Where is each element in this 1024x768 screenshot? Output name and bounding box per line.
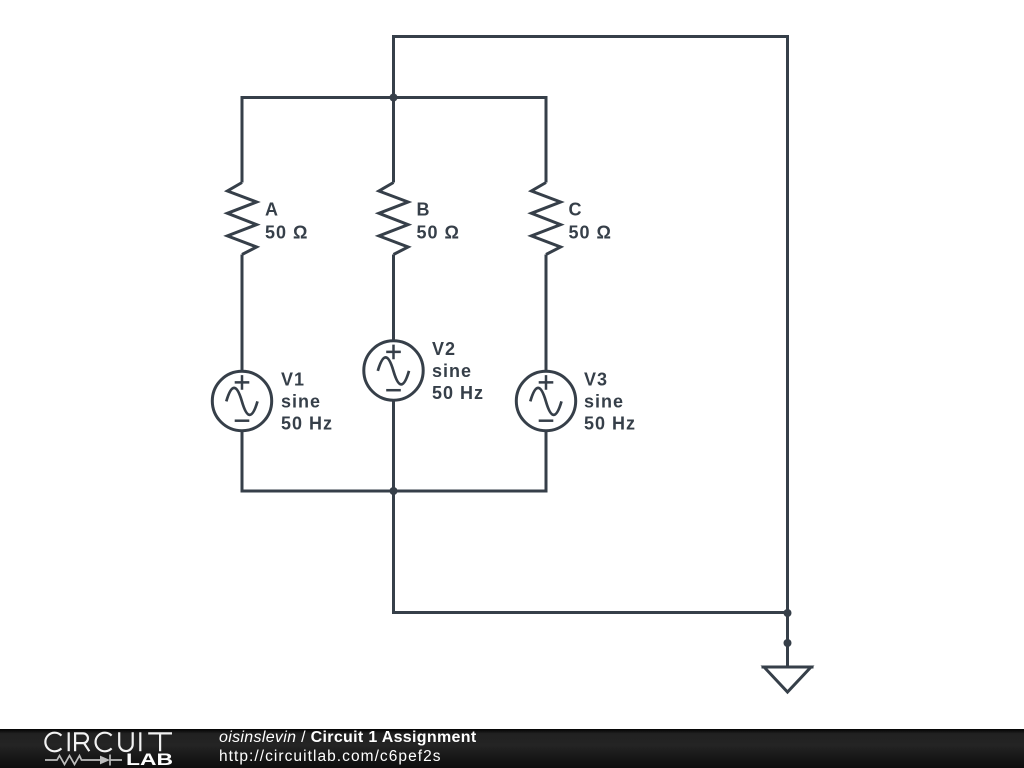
- svg-text:50 Ω: 50 Ω: [265, 223, 308, 243]
- footer bar: [0, 729, 1024, 768]
- footer text: [219, 729, 476, 765]
- svg-text:sine: sine: [584, 392, 624, 412]
- CircuitLab logo word CIRCUIT (drawn thin geometric letters): [45, 732, 172, 751]
- label V1 value: [281, 370, 333, 434]
- wire bottom rail: [242, 490, 546, 493]
- wire branch A top lead: [241, 96, 244, 183]
- node at right vertical / bottom return junction: [784, 609, 792, 617]
- resistor A: [227, 183, 256, 255]
- CircuitLab logo resistor-diode glyph: [45, 755, 122, 766]
- svg-text:A: A: [265, 200, 279, 220]
- label B value: [417, 200, 460, 243]
- wire outer loop top horizontal: [392, 35, 788, 38]
- wire branch B middle lead: [392, 255, 395, 343]
- voltage source V1: [212, 371, 271, 430]
- node at ground connection: [784, 639, 792, 647]
- svg-text:C: C: [569, 200, 583, 220]
- label V3 value: [584, 370, 636, 434]
- voltage source V3: [516, 371, 575, 430]
- wire branch C middle lead: [545, 255, 548, 373]
- voltage source V2: [364, 341, 423, 400]
- svg-text:50 Ω: 50 Ω: [569, 223, 612, 243]
- svg-text:V1: V1: [281, 370, 305, 390]
- wire top-left vertical from node B-top up to outer loop: [392, 37, 395, 98]
- svg-text:sine: sine: [432, 361, 472, 381]
- svg-text:50 Hz: 50 Hz: [281, 414, 333, 434]
- svg-text:50 Hz: 50 Hz: [584, 414, 636, 434]
- wire outer loop right vertical: [786, 35, 789, 613]
- wire branch B top lead: [392, 98, 395, 183]
- wire branch A bottom lead: [241, 430, 244, 493]
- label V2 value: [432, 339, 484, 403]
- wire branch C bottom lead: [545, 430, 548, 493]
- wire bottom return vertical: [392, 491, 395, 613]
- wire branch A middle lead: [241, 255, 244, 373]
- wire ground stub: [786, 613, 789, 667]
- label C value: [569, 200, 612, 243]
- svg-text:V3: V3: [584, 370, 608, 390]
- wire branch C top lead: [545, 96, 548, 183]
- ground: [762, 667, 814, 692]
- svg-text:V2: V2: [432, 339, 456, 359]
- node at top rail / branch B junction: [390, 94, 398, 102]
- node at bottom rail / branch B junction: [390, 487, 398, 495]
- svg-text:50 Hz: 50 Hz: [432, 383, 484, 403]
- wire top rail: [242, 96, 546, 99]
- svg-text:50 Ω: 50 Ω: [417, 223, 460, 243]
- wire bottom return horizontal: [392, 611, 788, 614]
- svg-text:LAB: LAB: [126, 751, 173, 768]
- svg-text:sine: sine: [281, 392, 321, 412]
- resistor B: [379, 183, 408, 255]
- resistor C: [531, 183, 560, 255]
- wire branch B bottom lead: [392, 400, 395, 491]
- svg-text:B: B: [417, 200, 431, 220]
- label A value: [265, 200, 308, 243]
